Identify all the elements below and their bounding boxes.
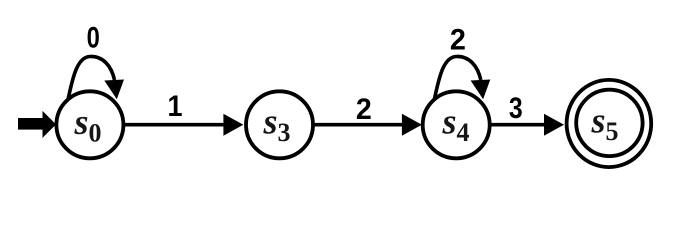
- state s0: [56, 91, 123, 158]
- transition s0 -> s3: [121, 114, 243, 136]
- svg-text:1: 1: [168, 90, 183, 123]
- svg-text:2: 2: [450, 24, 466, 57]
- state s5 (accepting, double circle): [567, 80, 652, 167]
- svg-text:2: 2: [356, 93, 372, 126]
- svg-text:0: 0: [87, 22, 100, 55]
- self-loop on s4: [434, 56, 490, 99]
- start arrow: [18, 111, 56, 138]
- transition s3 -> s4: [311, 114, 422, 136]
- self-loop on s0: [68, 56, 124, 99]
- state s4: [423, 91, 490, 158]
- transition s4 -> s5: [489, 114, 564, 136]
- svg-text:3: 3: [509, 92, 523, 125]
- state s3: [246, 91, 313, 158]
